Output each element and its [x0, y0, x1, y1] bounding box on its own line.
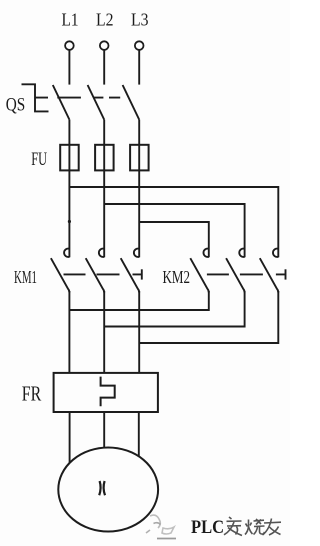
svg-text:FU: FU: [31, 149, 47, 170]
wire KM1 pole 2 to FR: [103, 291, 105, 373]
wire KM2 pole 3 return to phase wire 3: [139, 291, 278, 343]
watermark character 友: [263, 519, 282, 536]
contactor KM1 pole 3 fixed-contact hook: [134, 249, 139, 257]
wire L1 terminal to QS pole 1: [68, 50, 70, 85]
watermark character 发: [224, 517, 242, 536]
fuse FU1: [60, 145, 78, 171]
motor M circle: [58, 448, 158, 532]
wire FR to motor terminal V: [103, 412, 105, 448]
switch QS pole 1 blade: [53, 85, 70, 120]
wire QS pole 3 to junction, through fuse FU3: [138, 120, 140, 258]
wire phase1 branch to KM2 pole 3 (top crossover): [69, 187, 278, 257]
svg-text:KM2: KM2: [163, 267, 191, 287]
wire FR to motor terminal W: [138, 412, 140, 456]
thermal relay FR heater element symbol: [101, 377, 115, 407]
terminal circle L1: [65, 41, 74, 50]
contactor KM1 linkage end bar: [141, 269, 143, 279]
watermark character 烧: [245, 519, 265, 535]
contactor KM1 pole 2 blade: [86, 258, 105, 292]
wire FR to motor terminal U: [69, 412, 71, 462]
switch QS pole 3 blade: [123, 85, 140, 120]
terminal circle L2: [100, 41, 109, 50]
svg-text:KM1: KM1: [14, 267, 37, 287]
wire KM1 pole 3 to FR: [138, 291, 140, 373]
contactor KM1 pole 2 fixed-contact hook: [99, 249, 104, 257]
wire KM1 pole 1 to FR: [68, 291, 70, 373]
fuse FU3: [130, 145, 149, 171]
svg-text:L2: L2: [96, 10, 114, 30]
contactor KM2 pole 3 fixed-contact hook: [273, 249, 278, 257]
svg-text:PLC: PLC: [191, 517, 224, 538]
wire QS pole 1 to junction, through fuse FU1: [68, 120, 70, 258]
contactor KM2 linkage end bar: [285, 269, 287, 279]
svg-text:QS: QS: [6, 95, 26, 116]
contactor KM2 pole 3 blade: [260, 258, 279, 292]
contactor KM1 pole 1 fixed-contact hook: [64, 249, 69, 257]
switch QS linkage dashed line: [35, 97, 120, 99]
watermark hand icon: [146, 515, 176, 539]
thermal relay FR box: [54, 373, 158, 412]
wire phase3 branch to KM2 pole 1 (bottom crossover): [139, 222, 209, 257]
terminal circle L3: [135, 41, 144, 50]
wire KM2 pole 1 return to phase wire 1: [69, 291, 208, 310]
contactor KM1 linkage dashed line: [64, 273, 142, 275]
contactor KM1 pole 1 blade: [51, 258, 70, 292]
wire QS pole 2 to junction, through fuse FU2: [103, 120, 105, 258]
motor letter M: [99, 481, 105, 495]
switch QS handle bracket: [22, 84, 49, 111]
wire phase2 branch to KM2 pole 2 (middle crossover): [104, 204, 244, 257]
contactor KM2 linkage dashed line: [207, 273, 285, 275]
switch QS pole 2 blade: [88, 85, 105, 120]
junction dot on phase1 wire: [68, 220, 71, 223]
wire L3 terminal to QS pole 3: [138, 50, 140, 85]
wire KM2 pole 2 return to phase wire 2: [104, 291, 244, 327]
contactor KM2 pole 2 fixed-contact hook: [239, 249, 244, 257]
fuse FU2: [95, 145, 114, 171]
wire L2 terminal to QS pole 2: [103, 50, 105, 85]
contactor KM2 pole 1 fixed-contact hook: [203, 249, 208, 257]
svg-text:FR: FR: [22, 382, 42, 406]
contactor KM2 pole 2 blade: [226, 258, 245, 292]
svg-text:L1: L1: [62, 10, 79, 30]
contactor KM1 pole 3 blade: [121, 258, 140, 292]
contactor KM2 pole 1 blade: [190, 258, 209, 292]
svg-text:L3: L3: [131, 10, 149, 30]
